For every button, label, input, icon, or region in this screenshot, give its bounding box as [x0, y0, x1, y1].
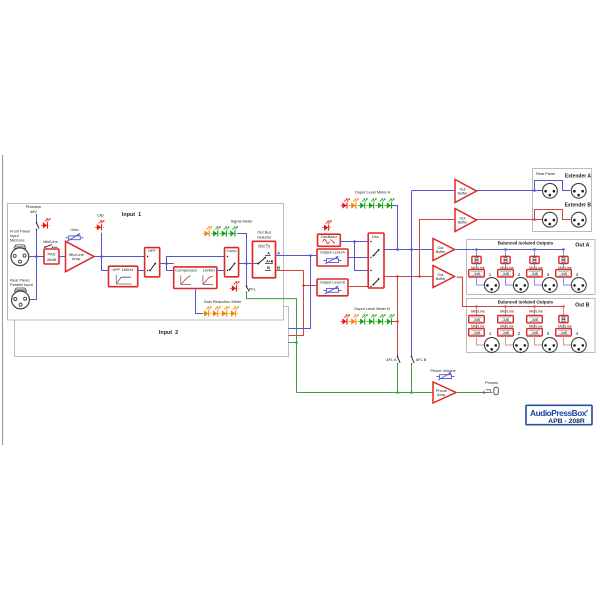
- svg-text:A+B: A+B: [266, 259, 274, 263]
- wire outB ch4 to xlr: [564, 336, 572, 345]
- svg-text:3: 3: [547, 331, 550, 336]
- label outB ch1 number: [489, 331, 492, 336]
- wire hpf filter out: [138, 270, 145, 272]
- switch compressor bypass: [225, 248, 239, 277]
- svg-text:Mic/Line: Mic/Line: [529, 310, 543, 314]
- svg-text:26dB: 26dB: [47, 257, 57, 262]
- wire bus A main: [384, 249, 433, 251]
- svg-text:Buffer: Buffer: [458, 192, 469, 196]
- svg-text:Ouput Level Meter A: Ouput Level Meter A: [355, 189, 391, 194]
- svg-text:AFL B: AFL B: [416, 357, 427, 362]
- pad outA ch4 -3dB: [556, 270, 572, 277]
- junction extB tap: [418, 275, 421, 278]
- switch HPF bypass: [145, 248, 160, 277]
- label outA ch4 micline: [558, 266, 572, 270]
- junction input bus: [35, 255, 38, 258]
- wire comp bypass: [167, 257, 225, 264]
- svg-text:Mic/Line: Mic/Line: [558, 324, 572, 328]
- wire bus B main: [384, 276, 433, 278]
- svg-text:Extender A: Extender A: [565, 174, 592, 180]
- connector XLR outB ch2: [513, 338, 528, 353]
- svg-text:1: 1: [489, 331, 492, 336]
- wire limiter out: [217, 270, 225, 272]
- svg-text:Mic/Line: Mic/Line: [43, 239, 58, 244]
- wire phone bus: [297, 392, 434, 394]
- connector XLR outA ch3: [542, 278, 557, 293]
- switch pad select: [44, 245, 57, 248]
- attenuator PAD 26dB: [44, 249, 59, 264]
- svg-text:4: 4: [576, 272, 579, 277]
- svg-text:Comp: Comp: [226, 249, 236, 253]
- wire gain reduction: [196, 289, 204, 314]
- meter output level A LEDs: [341, 198, 395, 208]
- svg-text:Compressor: Compressor: [175, 268, 197, 273]
- pad outA ch1 -3dB: [469, 270, 485, 277]
- label outA ch4 number: [576, 272, 579, 277]
- selector Out To: [253, 241, 276, 277]
- label PFL: [249, 286, 257, 291]
- pad outB ch1 row2 -3dB: [469, 329, 485, 336]
- label outB ch4 micline2: [558, 324, 572, 328]
- wire AFL A vertical: [397, 277, 399, 357]
- transformer outA ch1: [472, 256, 481, 263]
- label phones: [485, 380, 498, 385]
- svg-text:Mic/Line: Mic/Line: [500, 310, 514, 314]
- svg-text:AudioPressBox′: AudioPressBox′: [530, 408, 588, 418]
- junction outA ch1: [475, 248, 478, 251]
- switch phantom: [36, 222, 39, 230]
- label outA ch3 number: [547, 272, 550, 277]
- label outB ch1 micline2: [471, 324, 485, 328]
- connector XLR front input: [11, 245, 29, 266]
- wire input2 pfl stub: [289, 342, 297, 344]
- svg-text:Oscillator: Oscillator: [321, 234, 338, 239]
- svg-text:Mic/Line: Mic/Line: [500, 324, 514, 328]
- label AFL A: [386, 357, 397, 362]
- wire outA ch4 to xlr: [564, 277, 572, 285]
- meter gain reduction LEDs: [202, 306, 239, 316]
- svg-text:Phones: Phones: [485, 380, 498, 385]
- junction AFL A: [396, 391, 399, 394]
- switch oscillator insert: [368, 233, 384, 288]
- wire outB ch3 drop2: [534, 323, 536, 329]
- svg-text:Gain: Gain: [70, 227, 78, 232]
- svg-text:A: A: [267, 251, 270, 256]
- label AFL B: [416, 357, 427, 362]
- junction pfl in2: [295, 341, 298, 344]
- wire front input to pad: [29, 256, 44, 258]
- label outB ch2 number: [518, 331, 521, 336]
- svg-text:Buffer: Buffer: [458, 221, 469, 225]
- label output level meter A: [355, 189, 391, 194]
- wire bus B: [276, 271, 318, 336]
- svg-text:AFL A: AFL A: [386, 357, 397, 362]
- svg-text:Osc.: Osc.: [372, 234, 380, 239]
- svg-text:Amp.: Amp.: [437, 393, 446, 397]
- transformer outA ch3: [530, 256, 539, 263]
- connector XLR outA ch4: [571, 278, 586, 293]
- fader output level A: [317, 249, 348, 266]
- wire AFL B vertical: [411, 191, 413, 357]
- connector phone jack: [484, 387, 499, 395]
- wire PFL green: [247, 292, 297, 392]
- junction phones: [483, 391, 486, 394]
- potentiometer phone volume: [436, 372, 454, 380]
- junction outA ch4: [562, 248, 565, 251]
- wire level B out: [348, 286, 368, 288]
- svg-text:Mic/Line: Mic/Line: [529, 324, 543, 328]
- wire outB ch3 to xlr: [535, 336, 543, 345]
- LED clip: [95, 220, 105, 230]
- svg-text:HPF 160Hz: HPF 160Hz: [112, 267, 133, 272]
- svg-text:PAD: PAD: [48, 252, 56, 257]
- svg-text:Limiter: Limiter: [203, 268, 216, 273]
- connector XLR extender B1: [543, 212, 558, 227]
- svg-text:Signal Meter: Signal Meter: [231, 219, 254, 224]
- Input 2 block box: [15, 307, 289, 357]
- wire outA ch1 to xlr: [477, 277, 485, 285]
- label bus A: [277, 251, 280, 256]
- label mic/line switch: [43, 239, 58, 244]
- extender panel box: [533, 169, 592, 232]
- transformer outA ch2: [501, 256, 510, 263]
- connector XLR outA ch2: [513, 278, 528, 293]
- junction meter B: [396, 320, 399, 323]
- op-amp phone amp: [433, 382, 456, 403]
- switch AFL A: [397, 356, 400, 365]
- switch AFL B: [411, 356, 414, 365]
- connector XLR outA ch1: [484, 278, 499, 293]
- wire bus A: [276, 256, 318, 329]
- label outA ch1 number: [489, 272, 492, 277]
- junction outB ch2: [504, 305, 507, 308]
- op-amp out buffer B: [433, 266, 455, 288]
- wire outB ch4 drop1: [563, 307, 565, 316]
- wire level A out: [348, 257, 368, 259]
- wire outA ch2 to xlr: [506, 277, 514, 285]
- wire AFL B green: [411, 364, 413, 393]
- label outA ch3 micline: [529, 266, 543, 270]
- wire outB ch4 drop2: [563, 323, 565, 329]
- svg-text:1: 1: [489, 272, 492, 277]
- svg-text:Balanced Isolated Outputs: Balanced Isolated Outputs: [498, 299, 554, 304]
- junction hpf out: [165, 262, 168, 265]
- wire meter B: [392, 321, 398, 323]
- op-amp out buffer extender A: [455, 180, 477, 203]
- label bus B: [277, 265, 280, 270]
- svg-text:B: B: [277, 265, 280, 270]
- wire clip tap: [101, 233, 103, 257]
- svg-text:48V: 48V: [30, 209, 37, 214]
- wire out B feed: [457, 277, 564, 306]
- svg-text:Mic/Line: Mic/Line: [471, 310, 485, 314]
- svg-text:Gain Reduction Meter: Gain Reduction Meter: [204, 299, 243, 304]
- connector XLR extender A1: [543, 183, 558, 198]
- wire outA ch1 drop1: [476, 250, 478, 257]
- LED oscillator: [322, 220, 332, 230]
- compressor limiter block: [174, 267, 217, 289]
- svg-text:Clip: Clip: [97, 213, 104, 218]
- junction bus A in2: [309, 254, 312, 257]
- wire outA ch4 drop2: [563, 264, 565, 270]
- connector XLR outB ch3: [542, 338, 557, 353]
- svg-text:Out To: Out To: [258, 243, 271, 248]
- label signal meter: [231, 219, 254, 224]
- label outB ch2 micline1: [500, 310, 514, 314]
- LED phantom indicator: [41, 218, 51, 228]
- label out bus selector: [257, 230, 272, 240]
- label rear panel input: [10, 277, 34, 287]
- meter signal LEDs: [203, 226, 238, 236]
- wire amp out: [94, 256, 145, 258]
- logo AudioPressBox: [526, 405, 592, 425]
- Input 1 block box: [8, 204, 284, 321]
- wire outB ch2 drop1: [505, 307, 507, 316]
- wire outA ch4 drop1: [563, 250, 565, 257]
- label clip: [97, 213, 104, 218]
- frame edge line (left): [2, 155, 4, 445]
- junction outA ch3: [533, 248, 536, 251]
- label gain: [70, 227, 78, 232]
- pad outB ch4 row2 -3dB: [556, 329, 572, 336]
- junction outB ch3: [533, 305, 536, 308]
- svg-text:Balanced Isolated Outputs: Balanced Isolated Outputs: [498, 240, 554, 245]
- junction pfl tap: [245, 262, 248, 265]
- label output level meter B: [354, 306, 390, 311]
- svg-text:Rear Panel: Rear Panel: [536, 172, 555, 176]
- label outB ch3 micline2: [529, 324, 543, 328]
- svg-text:Parallel Input: Parallel Input: [10, 282, 34, 287]
- svg-text:Input 2: Input 2: [159, 330, 178, 336]
- wire outA ch3 drop2: [534, 264, 536, 270]
- wire outB ch2 drop2: [505, 323, 507, 329]
- svg-text:B: B: [267, 265, 270, 270]
- svg-text:HPF: HPF: [148, 249, 156, 253]
- potentiometer gain: [66, 233, 84, 241]
- wire comp sw out: [239, 263, 253, 265]
- svg-text:Phone Volume: Phone Volume: [430, 368, 455, 373]
- svg-text:Ouput Level Meter B: Ouput Level Meter B: [354, 306, 390, 311]
- svg-text:Out B: Out B: [575, 303, 590, 309]
- svg-text:Input 1: Input 1: [122, 212, 141, 218]
- wire outB ch1 drop1: [476, 307, 478, 316]
- op-amp out buffer extender B: [455, 209, 477, 232]
- pad outA ch3 -3dB: [527, 270, 543, 277]
- junction osc split: [353, 240, 356, 243]
- pad outA ch2 -3dB: [498, 270, 514, 277]
- op-amp mic/line amp: [66, 241, 95, 271]
- svg-text:Out A: Out A: [575, 243, 589, 249]
- wire rear input to bus: [30, 257, 37, 300]
- wire outA ch3 to xlr: [535, 277, 543, 285]
- pad outB ch3 row2 -3dB: [527, 329, 543, 336]
- out B box: [467, 299, 596, 353]
- wire hpf tap: [102, 257, 109, 271]
- connector XLR outB ch4: [571, 338, 586, 353]
- svg-text:Selector: Selector: [257, 234, 272, 239]
- wire outA ch1 drop2: [476, 264, 478, 270]
- svg-text:2: 2: [518, 272, 521, 277]
- wire AFL A green: [397, 364, 399, 393]
- junction amp out: [100, 255, 103, 258]
- pad outB ch1 row1 -3dB: [469, 316, 485, 323]
- junction bus B in2: [302, 284, 305, 287]
- wire signal meter: [238, 234, 247, 287]
- op-amp out buffer A: [433, 239, 455, 261]
- meter output level B LEDs: [341, 314, 395, 324]
- wire hpf sw out: [160, 263, 174, 265]
- wire comp in: [167, 264, 174, 271]
- junction ext B: [533, 218, 536, 221]
- wire outB ch1 drop2: [476, 323, 478, 329]
- junction ext A: [533, 189, 536, 192]
- svg-text:Output Level B: Output Level B: [320, 280, 346, 284]
- wire extender A feed: [412, 190, 456, 192]
- filter HPF 160Hz: [109, 266, 138, 287]
- connector XLR extender B2: [571, 212, 586, 227]
- junction outB ch1: [475, 305, 478, 308]
- junction AFL B: [410, 391, 413, 394]
- svg-text:Buffer: Buffer: [436, 250, 447, 254]
- label outB ch3 number: [547, 331, 550, 336]
- pad outB ch3 row1 -3dB: [527, 316, 543, 323]
- junction meterA tap: [396, 248, 399, 251]
- label outA ch2 number: [518, 272, 521, 277]
- wire out A bus: [455, 249, 564, 251]
- svg-text:PFL: PFL: [249, 286, 257, 291]
- wire pad to amp: [59, 256, 66, 258]
- wire outB ch1 to xlr: [477, 336, 485, 345]
- connector XLR rear input: [12, 288, 30, 309]
- wire phantom feed: [36, 214, 38, 257]
- wire meter A: [392, 206, 398, 250]
- svg-text:4: 4: [576, 331, 579, 336]
- wire outB ch2 to xlr: [506, 336, 514, 345]
- svg-text:2: 2: [518, 331, 521, 336]
- svg-text:APB - 208R: APB - 208R: [548, 418, 585, 425]
- label phone volume: [430, 368, 455, 373]
- wire outB ch3 drop1: [534, 307, 536, 316]
- fader output level B: [317, 279, 348, 296]
- label outB ch1 micline1: [471, 310, 485, 314]
- wire extender B link: [477, 210, 571, 220]
- wire outA ch2 drop1: [505, 250, 507, 257]
- junction extA tap: [410, 248, 413, 251]
- svg-text:Amp.: Amp.: [72, 256, 81, 261]
- transformer outA ch4: [559, 256, 568, 263]
- switch PFL: [246, 286, 249, 293]
- transformer outB ch4: [559, 316, 568, 323]
- wire phone out: [456, 392, 489, 394]
- pad outB ch2 row1 -3dB: [498, 316, 514, 323]
- wire outA ch2 drop2: [505, 264, 507, 270]
- wire extender A link: [477, 181, 571, 191]
- label gain reduction meter: [204, 299, 243, 304]
- junction outA ch2: [504, 248, 507, 251]
- label front panel input: [10, 229, 30, 243]
- svg-text:Buffer: Buffer: [436, 277, 447, 281]
- svg-text:Mic/Line: Mic/Line: [471, 324, 485, 328]
- label outB ch4 number: [576, 331, 579, 336]
- connector XLR extender A2: [571, 183, 586, 198]
- LED PFL: [230, 281, 240, 291]
- out A box: [467, 240, 596, 295]
- label outB ch3 micline1: [529, 310, 543, 314]
- junction outB ch4: [562, 305, 565, 308]
- label outB ch2 micline2: [500, 324, 514, 328]
- svg-text:Extender B: Extender B: [565, 203, 592, 209]
- wire outA ch3 drop1: [534, 250, 536, 257]
- pad outB ch2 row2 -3dB: [498, 329, 514, 336]
- label outA ch1 micline: [471, 266, 485, 270]
- label outA ch2 micline: [500, 266, 514, 270]
- svg-text:Mic/Line: Mic/Line: [10, 238, 25, 243]
- svg-text:Output Level A: Output Level A: [320, 250, 345, 254]
- junction meterB tap: [396, 275, 399, 278]
- wire extender B feed: [420, 220, 456, 277]
- wire osc out: [340, 242, 368, 271]
- oscillator box: [318, 234, 341, 246]
- svg-text:3: 3: [547, 272, 550, 277]
- node phantom 48V label: [26, 204, 42, 214]
- connector XLR outB ch1: [484, 338, 499, 353]
